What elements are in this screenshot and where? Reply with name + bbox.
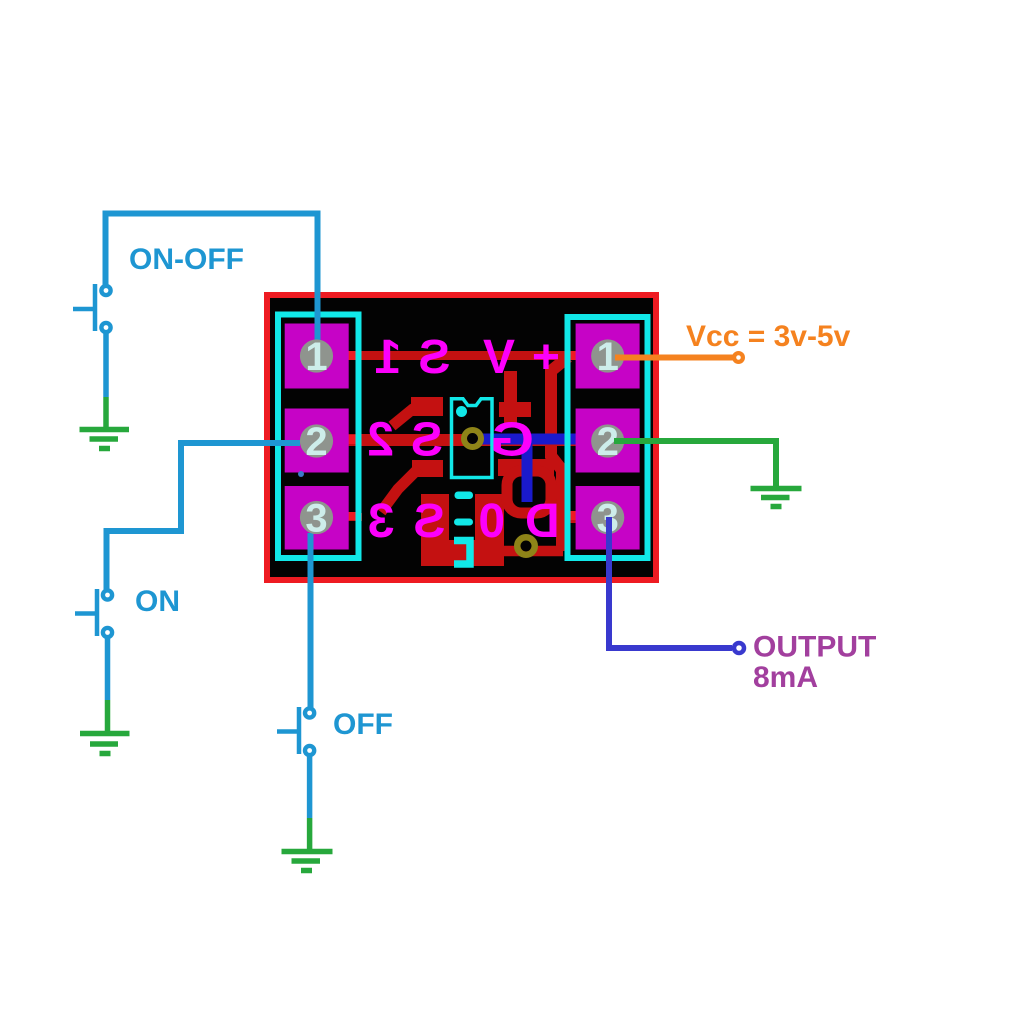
via V1 xyxy=(464,430,481,447)
trace blue vertical xyxy=(522,440,533,502)
wire W4 switch SW2 to ground xyxy=(105,638,111,701)
trace bar above D ring xyxy=(498,459,554,476)
stub pad3L right xyxy=(348,512,357,520)
pad L2 xyxy=(285,409,349,473)
silkscreen bracket xyxy=(454,541,470,565)
hole pad R3 xyxy=(591,501,624,534)
wire W6 switch SW3 to ground xyxy=(307,756,313,819)
wire W8 pad2R to ground xyxy=(614,441,776,487)
trace bottom net to pad3R xyxy=(552,511,578,523)
stub pad3R left xyxy=(566,511,576,520)
wire W7 Vcc orange xyxy=(615,355,733,361)
svg-text:3: 3 xyxy=(305,497,327,541)
svg-text:ON-OFF: ON-OFF xyxy=(129,243,244,276)
pad R2 xyxy=(576,409,640,473)
trace IC pin pad right of IC xyxy=(499,402,531,417)
trace +V drop to IC pin xyxy=(504,371,517,426)
via V2 xyxy=(517,537,535,555)
hole pad R2 xyxy=(591,424,624,457)
trace D ring around output pad xyxy=(507,471,551,513)
wire W1 net ON-OFF to pad1L xyxy=(106,214,318,343)
wire W9 OUTPUT indigo xyxy=(609,517,732,648)
wire W5 switch SW1 to ground xyxy=(103,333,109,398)
svg-text:S3: S3 xyxy=(349,495,446,548)
trace bottom pad rect left xyxy=(421,494,449,566)
trace IC pin pad left of IC xyxy=(411,397,443,416)
trace top bend near pad1R down to pad3R xyxy=(551,357,568,551)
trace diagonal from left pad to S2 xyxy=(392,408,414,426)
hole pad L2 xyxy=(300,424,333,457)
switch SW1 ON-OFF xyxy=(73,284,111,332)
svg-text:S2: S2 xyxy=(350,414,443,467)
ground GND2 xyxy=(751,489,802,507)
terminal OUTPUT xyxy=(734,643,744,653)
PCB board outline red border xyxy=(267,295,656,580)
left pad column cyan courtyard xyxy=(278,315,359,559)
svg-text:8mA: 8mA xyxy=(753,661,818,694)
hole pad L3 xyxy=(300,501,333,534)
trace pad left of IC row2 xyxy=(412,460,443,477)
trace via2 link xyxy=(502,546,563,557)
wire W1 tail into pad1L xyxy=(315,290,321,341)
switch SW3 OFF xyxy=(277,707,314,755)
svg-text:1: 1 xyxy=(305,335,327,379)
trace diagonal row2 to S3 xyxy=(381,468,419,512)
wire W3 pad3L to switch SW3 xyxy=(308,520,314,708)
svg-text:2: 2 xyxy=(305,420,327,464)
trace bridge between bottom pads xyxy=(449,540,476,566)
switch SW2 ON xyxy=(75,589,112,637)
PCB board black substrate xyxy=(264,292,659,583)
ground GND4 xyxy=(282,852,333,871)
svg-text:+V: +V xyxy=(466,331,560,384)
trace bottom pad rect right xyxy=(475,494,504,566)
IC U1 footprint outline xyxy=(452,399,493,478)
pad L3 xyxy=(285,486,349,550)
stub pad1R left xyxy=(566,351,576,360)
wire W2 net ON to pad2L xyxy=(107,443,331,591)
hole pad L1 xyxy=(300,339,333,372)
trace mid net pad2L row xyxy=(348,434,576,446)
svg-text:Vcc = 3v-5v: Vcc = 3v-5v xyxy=(686,320,851,353)
svg-text:OUTPUT: OUTPUT xyxy=(753,631,876,664)
stub pad2L right xyxy=(348,435,357,444)
silkscreen cap dash 1 xyxy=(455,492,474,500)
trace blue mid net xyxy=(470,434,576,445)
pad L1 xyxy=(285,324,349,389)
svg-text:OFF: OFF xyxy=(333,708,393,741)
silkscreen small dot left xyxy=(298,471,304,477)
svg-text:ON: ON xyxy=(135,585,180,618)
pad R1 xyxy=(576,324,640,389)
right pad column cyan courtyard xyxy=(568,317,648,558)
pad R3 xyxy=(576,486,640,550)
ground GND3 xyxy=(80,734,130,754)
svg-text:G: G xyxy=(490,413,534,467)
terminal Vcc xyxy=(734,353,743,362)
wire W2 tail into pad2L xyxy=(263,440,300,446)
ground GND1 xyxy=(80,430,130,449)
IC U1 pin1 dot xyxy=(456,406,467,417)
trace top net +V pad1L to pad1R xyxy=(348,351,576,360)
trace stub pad3L xyxy=(348,513,362,521)
svg-text:S1: S1 xyxy=(358,331,451,384)
hole pad R1 xyxy=(591,339,624,372)
stub pad1L right xyxy=(348,351,357,360)
wire W3 tail from pad3L xyxy=(308,533,314,587)
silkscreen cap dash 2 xyxy=(454,519,473,526)
